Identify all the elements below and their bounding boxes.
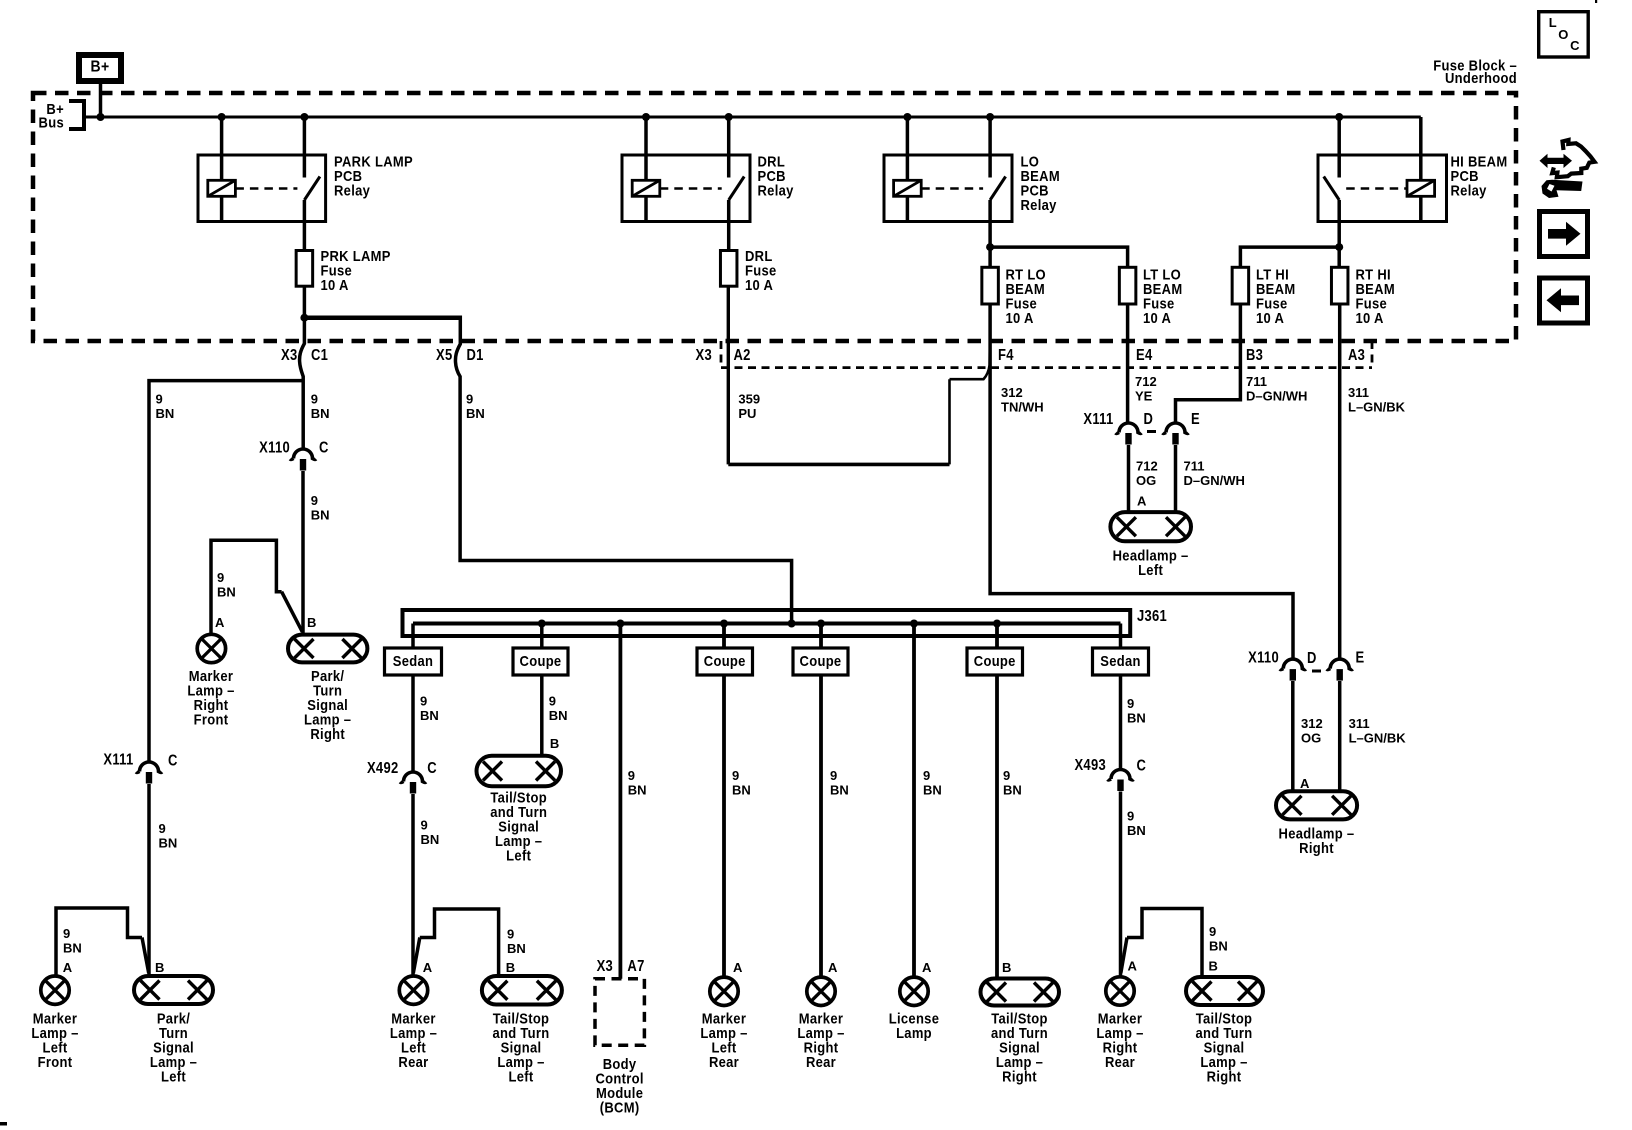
svg-text:C: C	[1570, 38, 1580, 53]
option box Sedan (right)	[1093, 648, 1149, 675]
svg-text:711: 711	[1184, 459, 1205, 474]
svg-text:BN: BN	[1003, 783, 1022, 798]
svg-text:X492: X492	[367, 760, 399, 777]
B+ supply terminal	[79, 55, 121, 81]
svg-text:F4: F4	[998, 347, 1014, 364]
svg-text:D: D	[1144, 411, 1154, 428]
wire 711 D-GN/WH to headlamp left	[1174, 445, 1178, 514]
svg-text:X3: X3	[281, 347, 297, 364]
wire label 9 BN below Sedan left	[420, 694, 439, 724]
wire branch to marker lamp left front	[56, 908, 149, 976]
svg-text:Sedan: Sedan	[1100, 652, 1140, 669]
lamp Park/Turn Signal Lamp - Right	[288, 635, 367, 743]
svg-text:OG: OG	[1136, 473, 1156, 488]
junction bus to LO BEAM relay	[903, 113, 994, 121]
pin A license lamp	[922, 960, 932, 975]
wire J361 to license lamp	[912, 624, 916, 978]
svg-text:BN: BN	[156, 406, 175, 421]
lamp Tail/Stop and Turn Signal Lamp - Left (mid)	[477, 756, 562, 864]
svg-text:B: B	[307, 615, 316, 630]
wire J361 to marker lamp left rear 2	[722, 624, 726, 978]
svg-text:BN: BN	[217, 585, 236, 600]
fuse LT LO BEAM 10 A	[1119, 265, 1182, 326]
connector X111 D/E labels and link	[1083, 411, 1200, 431]
connector E4	[1136, 347, 1152, 364]
svg-text:359: 359	[738, 392, 760, 407]
svg-text:B: B	[1209, 959, 1218, 974]
svg-text:BN: BN	[1209, 939, 1228, 954]
svg-text:BN: BN	[549, 708, 568, 723]
svg-text:X3: X3	[597, 958, 613, 975]
svg-text:10 A: 10 A	[1143, 309, 1171, 326]
pin B park/turn lamp left	[155, 960, 164, 975]
svg-text:Coupe: Coupe	[800, 652, 842, 669]
lamp Marker Lamp - Right Rear (2)	[1096, 977, 1143, 1070]
svg-text:Front: Front	[38, 1053, 73, 1070]
svg-text:X110: X110	[259, 439, 290, 456]
wire label 711 D-GN/WH	[1246, 374, 1307, 404]
fuse RT LO BEAM 10 A	[982, 265, 1046, 326]
lamp Headlamp - Left	[1110, 512, 1191, 578]
connector X110 D/E labels and link	[1248, 649, 1364, 671]
wire label 9 BN (left branch)	[156, 392, 175, 422]
connector X111 D	[1116, 423, 1142, 444]
wire label 9 BN (BCM)	[628, 768, 647, 798]
svg-text:A3: A3	[1348, 347, 1365, 364]
svg-text:X493: X493	[1074, 757, 1106, 774]
connector X110 C	[259, 439, 329, 470]
connector X3 A7 at BCM	[597, 958, 645, 975]
svg-text:9: 9	[311, 392, 318, 407]
fuse RT HI BEAM 10 A	[1331, 265, 1395, 326]
junction bus to DRL relay	[642, 113, 733, 121]
wire label 9 BN (marker right front)	[217, 570, 236, 600]
wire X111 C to park/turn lamp left	[147, 784, 151, 976]
wire C1 branch to X111 C	[149, 381, 304, 762]
wire Coupe 1 to tail/stop left mid	[540, 675, 544, 757]
svg-text:10 A: 10 A	[1256, 309, 1284, 326]
pin B tail/stop left mid	[550, 736, 559, 751]
wire label 359 PU	[738, 392, 760, 422]
pin A headlamp right	[1300, 776, 1310, 791]
junction dots on J361	[538, 620, 1001, 628]
connector X5 D1	[436, 347, 484, 364]
svg-text:B+: B+	[91, 59, 110, 76]
svg-text:(BCM): (BCM)	[600, 1099, 640, 1116]
svg-text:9: 9	[830, 768, 837, 783]
svg-text:B3: B3	[1246, 347, 1263, 364]
wire label 9 BN below Sedan right	[1127, 696, 1146, 726]
svg-text:BN: BN	[1127, 823, 1146, 838]
svg-text:BN: BN	[421, 832, 440, 847]
svg-text:BN: BN	[923, 783, 942, 798]
pin A marker lamp right rear 2	[1128, 959, 1138, 974]
svg-text:BN: BN	[732, 783, 751, 798]
relay LO BEAM PCB Relay	[884, 117, 1060, 222]
option box Sedan (left)	[385, 648, 442, 675]
svg-text:9: 9	[311, 493, 318, 508]
wire 311 L-GN/BK to headlamp right	[1338, 681, 1342, 793]
wire label 9 BN (tail/stop left rear)	[507, 927, 526, 957]
svg-text:9: 9	[1003, 768, 1010, 783]
lamp Marker Lamp - Left Rear	[390, 976, 437, 1070]
svg-text:B: B	[1002, 960, 1011, 975]
wire branch marker right rear to tail/stop right 2	[1121, 909, 1202, 978]
svg-text:711: 711	[1246, 374, 1267, 389]
wire J361 through Coupe box 2	[697, 648, 753, 675]
fuse LT HI BEAM 10 A	[1232, 265, 1295, 326]
connector X493 C	[1074, 757, 1146, 791]
lamp Marker Lamp - Right Rear	[797, 977, 844, 1070]
icon arrow next page	[1540, 212, 1588, 257]
svg-text:TN/WH: TN/WH	[1001, 400, 1044, 415]
svg-text:Relay: Relay	[334, 182, 370, 199]
wire label 9 BN (C1)	[311, 392, 330, 422]
svg-text:A2: A2	[734, 347, 751, 364]
option box Coupe 1	[513, 648, 568, 675]
svg-text:BN: BN	[628, 783, 647, 798]
wire PARK LAMP relay to PRK LAMP fuse	[303, 200, 307, 251]
wire HI BEAM relay to RT HI BEAM fuse	[1337, 200, 1341, 267]
wire branch marker left rear to tail/stop left	[413, 909, 498, 976]
label Fuse Block - Underhood	[1433, 57, 1517, 87]
svg-text:Left: Left	[506, 847, 531, 864]
fuse DRL 10 A	[720, 247, 776, 293]
svg-text:312: 312	[1301, 716, 1323, 731]
connector X3 A2 with dashed boundary strip	[696, 341, 1373, 368]
splice pack J361	[403, 608, 1168, 636]
svg-text:B: B	[155, 960, 164, 975]
svg-text:Relay: Relay	[758, 182, 794, 199]
wire DRL relay to DRL fuse	[727, 200, 731, 251]
wire label 9 BN (marker right rear)	[830, 768, 849, 798]
connector B3	[1246, 347, 1263, 364]
pin B park/turn lamp right	[307, 615, 316, 630]
wire label 312 TN/WH	[1001, 385, 1044, 415]
svg-text:X3: X3	[696, 347, 712, 364]
svg-text:X110: X110	[1248, 649, 1279, 666]
wire branch to marker lamp right front	[211, 540, 302, 635]
svg-text:OG: OG	[1301, 731, 1321, 746]
svg-text:L–GN/BK: L–GN/BK	[1348, 400, 1406, 415]
svg-text:712: 712	[1136, 459, 1158, 474]
svg-text:10 A: 10 A	[745, 276, 773, 293]
wire Sedan box to X492 C	[411, 675, 415, 772]
svg-text:312: 312	[1001, 385, 1023, 400]
svg-text:Coupe: Coupe	[520, 652, 562, 669]
svg-text:Rear: Rear	[1105, 1053, 1135, 1070]
svg-text:9: 9	[549, 694, 556, 709]
svg-text:9: 9	[159, 821, 166, 836]
svg-text:311: 311	[1348, 385, 1369, 400]
svg-text:9: 9	[628, 768, 635, 783]
svg-text:Lamp: Lamp	[896, 1024, 932, 1041]
B+ Bus bracket and label	[39, 100, 84, 131]
svg-text:Coupe: Coupe	[704, 652, 746, 669]
svg-text:BN: BN	[63, 941, 82, 956]
svg-text:9: 9	[63, 926, 70, 941]
wire J361 through Coupe box 4	[967, 648, 1023, 675]
wire 359 PU DRL output to RT LO beam circuit	[728, 286, 990, 464]
pin A marker lamp right rear	[828, 960, 838, 975]
svg-text:9: 9	[466, 392, 473, 407]
wire label 712 YE	[1135, 374, 1157, 404]
svg-text:J361: J361	[1137, 608, 1167, 625]
junction bus to PARK LAMP relay coil	[218, 113, 309, 121]
svg-text:Right: Right	[1299, 839, 1334, 856]
wire label 9 BN below Coupe 1	[549, 694, 568, 724]
junction B+ drop	[97, 113, 105, 121]
svg-text:BN: BN	[830, 783, 849, 798]
wire label 9 BN below X492	[421, 818, 440, 848]
svg-text:Coupe: Coupe	[974, 652, 1016, 669]
relay PARK LAMP PCB Relay	[198, 117, 413, 222]
wire LO BEAM relay to RT LO BEAM fuse	[988, 200, 992, 267]
pin B tail/stop lamp left	[506, 960, 515, 975]
svg-text:B: B	[550, 736, 559, 751]
svg-text:YE: YE	[1135, 389, 1153, 404]
svg-text:A: A	[1300, 776, 1310, 791]
lamp Marker Lamp - Left Rear (2)	[700, 977, 747, 1070]
pin A marker lamp left rear	[423, 960, 433, 975]
connector X111 C	[103, 752, 177, 784]
svg-text:A7: A7	[627, 958, 644, 975]
svg-text:D–GN/WH: D–GN/WH	[1184, 473, 1245, 488]
wire X110 C to park/turn lamp right B	[301, 471, 305, 635]
svg-text:Front: Front	[194, 711, 229, 728]
wire label 9 BN (license)	[923, 768, 942, 798]
wire label 711 D-GN/WH (below X111)	[1184, 459, 1245, 489]
svg-text:9: 9	[507, 927, 514, 942]
wire J361 to Coupe box 1	[540, 624, 544, 650]
wire 312 TN/WH to X110 D headlamp right	[990, 304, 1293, 659]
wire label 712 OG	[1136, 459, 1158, 489]
lamp Marker Lamp - Left Front	[31, 976, 78, 1070]
svg-text:9: 9	[1209, 924, 1216, 939]
svg-text:C: C	[319, 439, 329, 456]
svg-text:Rear: Rear	[709, 1053, 739, 1070]
wire X493 to marker lamp right rear 2	[1119, 792, 1123, 977]
svg-text:Relay: Relay	[1021, 196, 1057, 213]
svg-text:BN: BN	[159, 836, 178, 851]
connector X111 E	[1163, 423, 1189, 444]
wire junction to D1 drop	[304, 315, 460, 320]
svg-text:10 A: 10 A	[321, 276, 349, 293]
wire D1 to J361 feed	[455, 316, 791, 624]
svg-text:A: A	[215, 615, 225, 630]
svg-text:712: 712	[1135, 374, 1157, 389]
wire label 312 OG	[1301, 716, 1323, 746]
wire J361 to marker lamp right rear	[819, 624, 823, 978]
wire J361 to Sedan box left	[411, 624, 415, 650]
svg-text:9: 9	[1127, 696, 1134, 711]
svg-text:Rear: Rear	[398, 1053, 428, 1070]
wire 712 OG to headlamp left A	[1127, 445, 1131, 514]
connector X110 E	[1327, 659, 1353, 681]
svg-text:311: 311	[1349, 716, 1370, 731]
svg-text:PU: PU	[738, 406, 756, 421]
module Body Control Module BCM dashed box	[595, 979, 644, 1116]
pin A headlamp left	[1137, 494, 1147, 509]
wire label 9 BN (marker left front)	[63, 926, 82, 956]
wire J361 through Coupe box 3	[793, 648, 848, 675]
svg-text:BN: BN	[420, 708, 439, 723]
wire C1 to connector X110 C	[300, 318, 305, 449]
lamp Tail/Stop and Turn Signal Lamp - Right (2)	[1186, 977, 1263, 1085]
icon LOC locator box	[1539, 12, 1589, 57]
connector X3 C1	[281, 347, 328, 364]
wire 711 D-GN/WH to X111 E	[1176, 304, 1241, 423]
svg-text:Bus: Bus	[39, 114, 64, 131]
icon arrow previous page	[1540, 278, 1588, 323]
svg-text:A: A	[63, 960, 73, 975]
wire junction to LT HI BEAM fuse	[1240, 243, 1343, 267]
wire label 9 BN below X493	[1127, 809, 1146, 839]
wire label 311 L-GN/BK (below X110)	[1349, 716, 1407, 746]
svg-text:Right: Right	[1207, 1068, 1242, 1085]
junction C1/D1 split	[300, 314, 308, 322]
wire X492 to marker lamp left rear	[411, 794, 415, 976]
svg-text:X111: X111	[103, 752, 133, 769]
wire 312 OG to headlamp right A	[1291, 681, 1295, 793]
svg-text:BN: BN	[1127, 710, 1146, 725]
junction bus to HI BEAM relay switch	[1335, 113, 1343, 121]
connector X110 D	[1280, 659, 1306, 681]
lamp Tail/Stop and Turn Signal Lamp - Right	[981, 979, 1060, 1085]
wire 712 YE to X111 D	[1126, 304, 1130, 423]
svg-text:O: O	[1558, 27, 1568, 42]
svg-text:D: D	[1307, 650, 1317, 667]
fuse block underhood dashed boundary	[33, 93, 1516, 341]
wire label 9 BN (marker left rear 2)	[732, 768, 751, 798]
wire Sedan right to X493 C	[1119, 675, 1123, 769]
wire 311 L-GN/BK to X110 E	[1338, 304, 1342, 659]
svg-text:L: L	[1549, 15, 1557, 30]
svg-text:E4: E4	[1136, 347, 1152, 364]
wire J361 to tail/stop right	[995, 624, 999, 980]
svg-text:Left: Left	[508, 1068, 533, 1085]
wire label 9 BN below X111 C	[159, 821, 178, 851]
lamp License Lamp	[889, 977, 939, 1041]
svg-text:10 A: 10 A	[1356, 309, 1384, 326]
svg-text:9: 9	[1127, 809, 1134, 824]
svg-text:A: A	[828, 960, 838, 975]
svg-text:L–GN/BK: L–GN/BK	[1349, 731, 1407, 746]
relay DRL PCB Relay	[622, 117, 794, 222]
svg-text:Left: Left	[1138, 561, 1163, 578]
lamp Headlamp - Right	[1276, 791, 1357, 856]
svg-text:BN: BN	[507, 941, 526, 956]
pin B tail/stop lamp right	[1002, 960, 1011, 975]
svg-text:A: A	[423, 960, 433, 975]
svg-text:Rear: Rear	[806, 1053, 836, 1070]
svg-text:9: 9	[156, 392, 163, 407]
svg-text:Right: Right	[1002, 1068, 1037, 1085]
icon forward reference wrench arrow	[1540, 140, 1595, 198]
svg-text:A: A	[1128, 959, 1138, 974]
fuse PRK LAMP 10 A	[296, 247, 391, 293]
wire B+ to bus	[99, 84, 103, 117]
wire label 9 BN (tail/stop right rear)	[1209, 924, 1228, 954]
svg-text:BN: BN	[311, 406, 330, 421]
svg-text:C1: C1	[311, 347, 328, 364]
wire junction to LT LO BEAM fuse	[986, 243, 1128, 267]
svg-text:C: C	[427, 760, 437, 777]
connector A3	[1348, 347, 1365, 364]
pin A marker lamp left front	[63, 960, 73, 975]
svg-text:9: 9	[732, 768, 739, 783]
svg-text:9: 9	[217, 570, 224, 585]
wire J361 to Sedan box right	[1119, 624, 1123, 650]
svg-text:C: C	[1137, 757, 1147, 774]
svg-text:Sedan: Sedan	[393, 652, 433, 669]
svg-text:A: A	[1137, 494, 1147, 509]
svg-text:Underhood: Underhood	[1445, 69, 1517, 86]
pin A marker lamp right front	[215, 615, 225, 630]
relay HI BEAM PCB Relay	[1318, 117, 1507, 222]
svg-text:9: 9	[421, 818, 428, 833]
svg-text:Left: Left	[161, 1068, 186, 1085]
lamp Park/Turn Signal Lamp - Left	[134, 976, 213, 1085]
svg-text:X111: X111	[1083, 411, 1113, 428]
pin B tail/stop lamp right 2	[1209, 959, 1218, 974]
svg-text:D1: D1	[467, 347, 484, 364]
svg-text:A: A	[922, 960, 932, 975]
svg-text:BN: BN	[466, 406, 485, 421]
svg-text:A: A	[733, 960, 743, 975]
svg-text:B: B	[506, 960, 515, 975]
pin A marker lamp left rear 2	[733, 960, 743, 975]
connector F4	[998, 347, 1014, 364]
wire PRK LAMP fuse to junction	[303, 286, 307, 318]
svg-text:9: 9	[923, 768, 930, 783]
svg-text:Relay: Relay	[1451, 182, 1487, 199]
svg-text:E: E	[1191, 411, 1200, 428]
svg-text:10 A: 10 A	[1006, 309, 1034, 326]
svg-text:D–GN/WH: D–GN/WH	[1246, 389, 1307, 404]
wire B+ bus horizontal	[84, 116, 1421, 119]
wire J361 to BCM	[619, 624, 623, 979]
svg-text:9: 9	[420, 694, 427, 709]
lamp Marker Lamp - Right Front	[187, 634, 234, 727]
svg-text:E: E	[1356, 649, 1365, 666]
wire label 311 L-GN/BK	[1348, 385, 1406, 415]
wire label 9 BN (D1)	[466, 392, 485, 422]
svg-text:X5: X5	[436, 347, 452, 364]
svg-text:BN: BN	[311, 508, 330, 523]
lamp Tail/Stop and Turn Signal Lamp - Left (rear)	[482, 976, 562, 1085]
svg-text:C: C	[168, 752, 178, 769]
connector X492 C	[367, 760, 437, 794]
wire label 9 BN below X110 C	[311, 493, 330, 523]
svg-text:Right: Right	[310, 725, 345, 742]
wire label 9 BN (tail/stop right)	[1003, 768, 1022, 798]
